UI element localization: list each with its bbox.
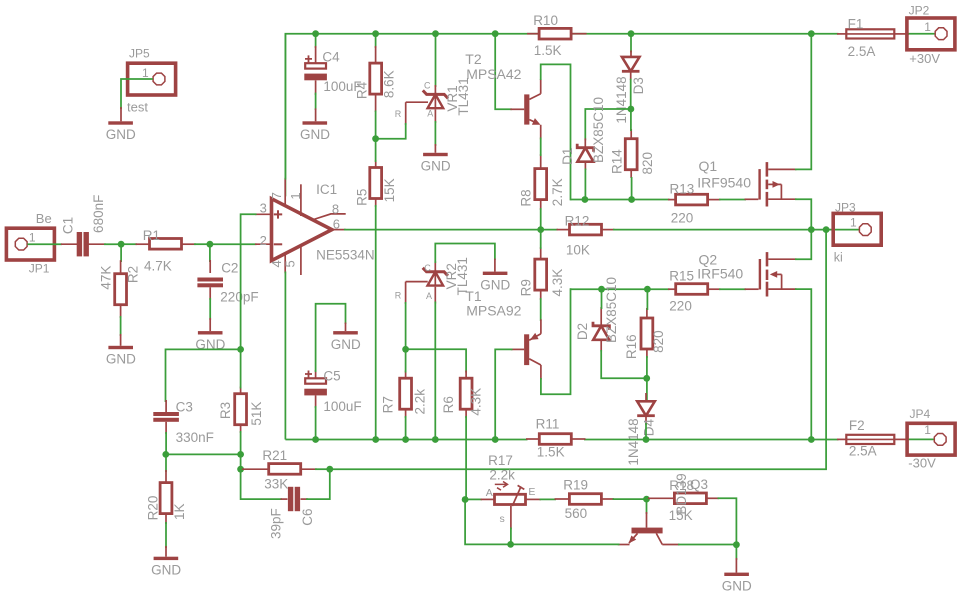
svg-text:A: A	[426, 291, 432, 301]
wire R9 to T1 emitter	[540, 298, 542, 321]
svg-text:D4: D4	[641, 418, 656, 436]
svg-text:5: 5	[283, 260, 298, 267]
junction R5 rail	[372, 436, 379, 443]
junction Q2 rail	[808, 436, 815, 443]
svg-text:F2: F2	[849, 418, 865, 433]
junction Q3 collector R18	[733, 541, 740, 548]
svg-text:-30V: -30V	[908, 455, 936, 470]
wire R1 to C2 node	[194, 243, 210, 245]
junction T1 base rail	[492, 436, 499, 443]
wire down to R21	[240, 454, 242, 469]
svg-text:test: test	[127, 100, 148, 115]
svg-text:A: A	[486, 487, 493, 499]
connector JP2 +30V	[907, 4, 955, 67]
svg-text:MPSA42: MPSA42	[466, 66, 521, 82]
wire R6 bottom to R17	[465, 416, 467, 499]
connector JP3 ki	[833, 201, 881, 265]
resistor R16	[624, 308, 666, 359]
junction VR1 cathode	[432, 30, 439, 37]
junction wiper line	[507, 541, 514, 548]
transistor Q3 BD139	[618, 512, 680, 545]
svg-text:15K: 15K	[382, 178, 397, 202]
wire Q1 source to rail	[795, 34, 811, 170]
junction R21 C6 left	[237, 466, 244, 473]
wire T1 base	[495, 349, 512, 439]
wire T2 collector loop	[541, 64, 571, 200]
svg-text:33K: 33K	[264, 476, 288, 491]
wire T2 emitter to R8	[540, 138, 542, 157]
svg-text:1N4148: 1N4148	[614, 76, 629, 123]
junction R6 R17 A	[462, 496, 469, 503]
wire feedback line	[330, 230, 826, 470]
wire C6 right route	[306, 469, 330, 499]
svg-text:T2: T2	[465, 51, 482, 67]
capacitor C4	[304, 46, 361, 95]
wire node to R21 node	[166, 453, 241, 455]
svg-text:+30V: +30V	[909, 51, 940, 66]
wire R17 A junction	[466, 498, 482, 500]
diode D4 1N4148	[626, 393, 656, 466]
svg-text:R7: R7	[380, 396, 395, 413]
wire C5 top to GND	[316, 304, 346, 372]
svg-text:Be: Be	[36, 211, 52, 226]
resistor R21	[242, 448, 317, 491]
svg-text:R12: R12	[565, 214, 590, 229]
capacitor C2	[197, 260, 258, 304]
wire pin4 to negative rail	[284, 272, 286, 440]
svg-text:4.3K: 4.3K	[469, 388, 484, 416]
svg-text:MPSA92: MPSA92	[466, 303, 521, 319]
wire Q1 drain to output	[795, 199, 811, 229]
wire R16 to D4	[646, 356, 648, 402]
wire R9 top	[540, 230, 542, 249]
wire R14 bottom	[631, 177, 633, 200]
svg-text:R9: R9	[519, 279, 534, 296]
wire emitter line	[511, 543, 620, 545]
resistor R9	[519, 247, 566, 300]
junction D2 gate line	[598, 286, 605, 293]
wire R4 top	[375, 34, 377, 48]
wire R12 to JP3 line	[613, 229, 859, 231]
ground GND below R20	[151, 546, 181, 578]
wire JP5 pin to GND	[121, 79, 153, 109]
svg-text:C1: C1	[61, 217, 76, 234]
wire D2 anode route	[601, 350, 647, 378]
svg-text:220: 220	[669, 299, 692, 314]
svg-text:820: 820	[640, 152, 655, 175]
wire R16 top	[646, 289, 648, 310]
resistor R7	[380, 371, 427, 419]
svg-text:C: C	[424, 81, 431, 91]
svg-text:R5: R5	[354, 189, 369, 206]
svg-text:1.5K: 1.5K	[534, 43, 562, 58]
wire T1 collector loop	[541, 288, 571, 394]
zener D2 BZX85C10	[575, 277, 619, 352]
transistor Q1 IRF9540	[697, 158, 796, 207]
svg-text:8: 8	[332, 202, 339, 217]
svg-text:1.5K: 1.5K	[537, 445, 565, 460]
wire R17 wiper	[510, 528, 512, 545]
svg-text:TL431: TL431	[456, 77, 471, 115]
junction C1 R1 R2	[118, 241, 125, 248]
junction C4 top	[312, 30, 319, 37]
wire negative rail right	[584, 439, 839, 441]
trimmer R17	[481, 453, 541, 529]
wire R14 top	[630, 109, 632, 131]
junction R4 top	[372, 30, 379, 37]
wire C4 to GND	[315, 93, 317, 110]
resistor R10	[527, 13, 587, 58]
wire F1 to JP2	[907, 33, 935, 35]
wire R2 to GND	[120, 316, 122, 336]
svg-text:51K: 51K	[249, 402, 264, 426]
resistor R3	[218, 387, 264, 434]
svg-text:GND: GND	[106, 352, 136, 367]
svg-text:JP3: JP3	[835, 201, 856, 215]
resistor R18	[648, 473, 719, 523]
capacitor C5	[304, 369, 361, 415]
wire R3 top	[240, 349, 242, 388]
wire Q3 to GND	[735, 545, 737, 560]
svg-text:R: R	[395, 109, 402, 119]
shunt regulator VR1 TL431	[395, 77, 471, 125]
svg-text:6: 6	[333, 216, 340, 231]
svg-text:1: 1	[288, 192, 303, 199]
shunt regulator VR2 TL431	[395, 257, 470, 304]
resistor R4	[354, 46, 396, 112]
transistor T2 MPSA42	[465, 51, 540, 139]
zener D1 BZX85C10	[560, 97, 606, 170]
junction R1 C2 opamp	[207, 241, 214, 248]
svg-text:820: 820	[651, 330, 666, 353]
wire Q2 drain to output	[795, 230, 811, 260]
wire D3 to node	[630, 79, 632, 109]
wire D1 anode down	[584, 169, 586, 200]
wire +30V rail left segment	[285, 34, 838, 197]
svg-text:BZX85C10: BZX85C10	[604, 277, 619, 343]
wire VR1 C	[435, 34, 437, 87]
svg-text:1K: 1K	[172, 504, 187, 521]
wire pin3 to feedback node	[241, 214, 257, 349]
wire JP1 to C1	[27, 243, 62, 245]
wire R5 bottom to rail	[375, 205, 377, 440]
diode D3 1N4148	[614, 51, 646, 124]
svg-text:C3: C3	[176, 400, 193, 415]
wire VR1 A to GND	[434, 121, 436, 146]
svg-text:GND: GND	[151, 563, 181, 578]
wire R20 top	[165, 454, 167, 472]
wire C6 left route	[241, 469, 282, 499]
wire gate line Q2	[571, 288, 670, 290]
svg-text:39pF: 39pF	[269, 508, 284, 539]
svg-text:R15: R15	[669, 269, 694, 284]
op-amp IC1 NE5534N	[255, 178, 375, 275]
wire C4 top	[315, 34, 317, 48]
svg-text:1N4148: 1N4148	[626, 418, 641, 465]
svg-text:Q3: Q3	[690, 477, 708, 492]
svg-text:R6: R6	[441, 396, 456, 413]
svg-text:2: 2	[260, 233, 267, 248]
svg-text:GND: GND	[480, 278, 510, 293]
svg-text:R13: R13	[670, 182, 695, 197]
svg-text:GND: GND	[106, 127, 136, 142]
junction output Q1Q2	[808, 226, 815, 233]
svg-text:7: 7	[269, 192, 284, 199]
svg-text:JP4: JP4	[910, 407, 931, 421]
junction R3 R21 node	[237, 451, 244, 458]
svg-text:GND: GND	[331, 337, 361, 352]
svg-text:1: 1	[142, 66, 149, 80]
resistor R11	[526, 417, 586, 460]
svg-text:C6: C6	[300, 508, 315, 525]
svg-text:4.3K: 4.3K	[550, 269, 565, 297]
wire F2 to JP4	[907, 438, 935, 440]
svg-text:JP1: JP1	[29, 261, 50, 275]
ground GND below C2	[195, 318, 225, 352]
wire R3 bottom	[240, 431, 242, 454]
wire R18 right corner	[718, 498, 737, 545]
wire pin7 supply	[284, 34, 286, 180]
svg-text:R4: R4	[354, 81, 369, 99]
junction T2 base rail	[492, 30, 499, 37]
svg-text:BD139: BD139	[674, 473, 689, 514]
svg-text:D3: D3	[631, 77, 646, 94]
svg-text:GND: GND	[300, 127, 330, 142]
svg-text:ki: ki	[834, 251, 843, 265]
svg-text:R16: R16	[624, 334, 639, 359]
junction R21 C6 right	[326, 466, 333, 473]
svg-text:IRF540: IRF540	[697, 266, 743, 282]
svg-text:R20: R20	[146, 496, 161, 521]
svg-text:s: s	[500, 513, 505, 525]
svg-text:R10: R10	[533, 13, 558, 28]
svg-text:220: 220	[671, 211, 694, 226]
junction VR2R R7	[402, 346, 409, 353]
junction C3 R20 node	[162, 451, 169, 458]
wire C5 bottom	[315, 406, 317, 440]
ground GND near JP5	[106, 107, 136, 142]
wire junction to R1	[121, 243, 137, 245]
resistor R12	[557, 214, 615, 258]
wire D2 top	[601, 289, 603, 309]
svg-text:1: 1	[29, 231, 36, 245]
svg-text:R11: R11	[536, 417, 560, 432]
wire junction to opamp pin2	[210, 243, 257, 245]
svg-text:R14: R14	[610, 149, 625, 174]
junction D3 rail	[628, 30, 635, 37]
svg-text:R3: R3	[218, 402, 233, 419]
junction D4 rail	[643, 436, 650, 443]
svg-text:8.6K: 8.6K	[382, 70, 397, 98]
junction D1 D3 R14	[628, 106, 635, 113]
wire C3 bottom	[165, 432, 167, 454]
ground GND below R2	[106, 334, 136, 367]
svg-text:R1: R1	[143, 228, 160, 243]
ground GND below Q3	[722, 558, 752, 594]
svg-text:100uF: 100uF	[323, 399, 361, 414]
svg-text:R21: R21	[262, 448, 287, 463]
wire R21 right	[315, 468, 330, 470]
wire R8 to output	[540, 208, 542, 230]
svg-text:R2: R2	[126, 266, 141, 283]
ground GND VR2 C	[480, 259, 510, 293]
svg-text:2.5A: 2.5A	[849, 443, 877, 458]
svg-text:R19: R19	[563, 478, 588, 493]
resistor R15	[668, 269, 721, 314]
svg-text:C2: C2	[221, 260, 238, 275]
connector JP1 Be	[6, 211, 54, 275]
resistor R5	[354, 160, 397, 207]
wire C2 top	[209, 244, 211, 262]
svg-text:R17: R17	[488, 453, 513, 468]
svg-text:IC1: IC1	[316, 182, 337, 197]
wire R15 to Q2 gate	[719, 288, 746, 290]
ground GND C5	[331, 323, 361, 353]
wire C3 top route	[166, 349, 241, 402]
svg-text:C4: C4	[322, 50, 340, 65]
svg-text:GND: GND	[722, 579, 752, 594]
svg-text:A: A	[427, 109, 433, 119]
junction D2 R16 D4	[643, 375, 650, 382]
junction VR2A rail	[432, 436, 439, 443]
wire gate line Q1	[571, 199, 670, 201]
fuse F2	[837, 418, 909, 458]
svg-text:GND: GND	[421, 159, 451, 174]
svg-text:R8: R8	[519, 189, 534, 206]
svg-text:BZX85C10: BZX85C10	[591, 97, 606, 163]
wire R2 top	[120, 244, 122, 262]
wire R17 E to R19	[540, 498, 557, 500]
svg-text:2.2k: 2.2k	[413, 389, 428, 415]
svg-text:D2: D2	[575, 323, 590, 340]
svg-text:2.7K: 2.7K	[550, 178, 565, 206]
svg-text:R: R	[395, 290, 402, 300]
resistor R6	[441, 371, 484, 419]
svg-text:IRF9540: IRF9540	[697, 175, 751, 191]
resistor R19	[555, 478, 615, 522]
svg-text:C: C	[424, 263, 431, 273]
svg-text:330nF: 330nF	[176, 430, 214, 445]
wire VR2 C to GND stub	[435, 244, 495, 264]
capacitor C3	[153, 400, 214, 446]
svg-text:NE5534N: NE5534N	[316, 248, 375, 263]
resistor R14	[610, 129, 655, 178]
fuse F1	[837, 17, 909, 59]
svg-text:4.7K: 4.7K	[144, 259, 172, 274]
junction R16 gate line	[644, 286, 651, 293]
capacitor C1	[61, 195, 107, 257]
svg-text:E: E	[528, 486, 535, 498]
svg-text:680nF: 680nF	[91, 195, 106, 233]
wire R5 top	[375, 139, 377, 162]
capacitor C6	[269, 487, 316, 539]
svg-text:2.5A: 2.5A	[848, 44, 876, 59]
junction R14 gate line	[628, 196, 635, 203]
svg-text:1: 1	[924, 423, 931, 437]
wire VR2 R down	[405, 302, 407, 349]
wire Q3 base	[646, 499, 648, 514]
svg-text:560: 560	[565, 506, 588, 521]
wire C1 to R1 node	[104, 243, 121, 245]
svg-text:1: 1	[924, 20, 931, 34]
wire node to R6	[406, 349, 467, 372]
junction R7 rail	[402, 436, 409, 443]
resistor R1	[136, 228, 197, 274]
wire R19 to node	[613, 498, 647, 500]
svg-text:4: 4	[269, 260, 284, 267]
svg-text:1: 1	[850, 216, 857, 230]
svg-text:JP2: JP2	[909, 4, 930, 18]
resistor R8	[519, 154, 566, 210]
transistor T1 MPSA92	[465, 288, 541, 380]
svg-text:F1: F1	[848, 17, 864, 32]
wire D3 top	[630, 34, 632, 53]
connector JP4 -30V	[907, 407, 955, 470]
svg-text:C5: C5	[323, 369, 340, 384]
svg-text:47K: 47K	[99, 266, 114, 290]
junction Q1 rail	[808, 30, 815, 37]
wire node to D1	[585, 109, 631, 140]
svg-text:JP5: JP5	[129, 47, 150, 61]
wire R7 node	[405, 349, 407, 372]
wire VR2 A down	[434, 302, 436, 440]
ground GND below VR1	[421, 144, 451, 174]
transistor Q2 IRF540	[697, 252, 796, 297]
wire opamp output	[344, 229, 558, 231]
wire C2 to GND	[209, 298, 211, 320]
wire R17 A down	[465, 500, 509, 545]
junction R8 R9 output	[537, 226, 544, 233]
junction R19 R18 Q3	[643, 496, 650, 503]
wire R7 bottom	[405, 416, 407, 440]
wire Q2 source to neg rail	[795, 289, 811, 439]
svg-text:10K: 10K	[566, 243, 590, 258]
junction output feedback	[823, 226, 830, 233]
junction C5 rail	[312, 436, 319, 443]
junction D1 gate line	[582, 196, 589, 203]
svg-text:2.2k: 2.2k	[489, 467, 515, 482]
junction R4 R5 VR1	[372, 135, 379, 142]
junction pin3 C3 R3	[237, 346, 244, 353]
svg-text:220pF: 220pF	[220, 289, 258, 304]
wire VR1 R to R5 node	[375, 123, 406, 139]
svg-text:Q1: Q1	[699, 158, 718, 174]
resistor R2	[99, 260, 141, 318]
ground GND below C4	[300, 108, 330, 142]
wire R13 to Q1 gate	[719, 199, 746, 201]
wire R20 to GND	[165, 522, 167, 548]
wire T2 base	[495, 34, 512, 110]
wire collector to corner	[678, 544, 736, 546]
wire R4 to node	[375, 111, 377, 139]
wire negative rail	[285, 439, 527, 441]
resistor R13	[668, 182, 721, 226]
wire D4 to neg rail	[645, 423, 647, 440]
resistor R20	[146, 470, 188, 524]
svg-text:3: 3	[260, 201, 267, 216]
connector JP5	[127, 47, 176, 115]
svg-text:D1: D1	[560, 148, 575, 165]
